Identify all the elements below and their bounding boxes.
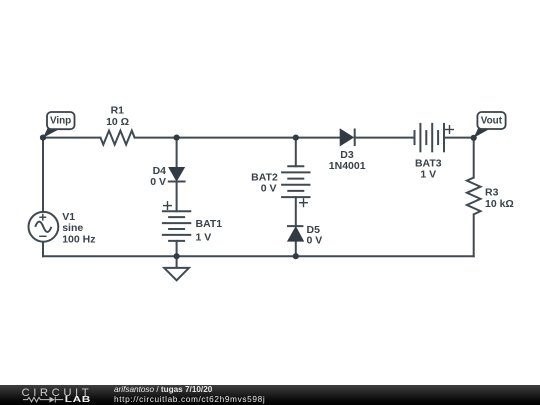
battery BAT1 labels bbox=[196, 218, 223, 244]
voltage source V1 bbox=[29, 212, 59, 242]
diode D4 bbox=[168, 168, 186, 182]
wire top rail: R1 to D3 anode bbox=[135, 137, 341, 139]
svg-text:1 V: 1 V bbox=[196, 232, 212, 244]
footer title text line 1 bbox=[114, 385, 212, 394]
svg-text:BAT1: BAT1 bbox=[196, 218, 223, 230]
wire bottom rail bbox=[43, 255, 474, 257]
resistor R1 bbox=[101, 131, 135, 145]
diode D3 bbox=[340, 129, 355, 147]
diode D4 labels bbox=[150, 165, 166, 188]
diode D5 labels bbox=[307, 224, 323, 246]
wire: BAT3 to Vout node bbox=[444, 137, 474, 139]
battery BAT1 bbox=[162, 211, 191, 241]
junction dot bottom rail at ground bbox=[174, 253, 180, 259]
svg-text:R1: R1 bbox=[111, 105, 125, 117]
battery BAT3 bbox=[415, 123, 445, 152]
V1 labels bbox=[62, 211, 95, 245]
node D (Vout) junction dot bbox=[471, 135, 477, 141]
svg-text:10 Ω: 10 Ω bbox=[106, 116, 129, 128]
battery BAT3 plus sign bbox=[445, 125, 454, 134]
svg-text:Vinp: Vinp bbox=[50, 116, 71, 127]
svg-text:BAT3: BAT3 bbox=[415, 158, 442, 170]
resistor R1 labels bbox=[106, 105, 129, 128]
svg-text:V1: V1 bbox=[62, 211, 75, 223]
wire: D3 cathode to BAT3 bbox=[355, 137, 415, 139]
wire: D4 cathode to BAT1 top bbox=[176, 181, 178, 211]
wire: R3 bottom to bottom rail bbox=[473, 214, 475, 256]
resistor R3 labels bbox=[485, 186, 514, 210]
V1 minus sign bbox=[39, 235, 46, 237]
svg-text:100 Hz: 100 Hz bbox=[62, 233, 95, 245]
wire: D5 anode to bottom rail bbox=[295, 241, 297, 256]
node C junction dot bbox=[293, 135, 299, 141]
wire: node B down to D4 bbox=[176, 138, 178, 168]
CircuitLab logo bbox=[0, 385, 100, 405]
wire: BAT1 bottom to bottom rail bbox=[176, 241, 178, 256]
svg-text:1N4001: 1N4001 bbox=[329, 160, 366, 172]
wire top rail left: node A to R1 bbox=[43, 137, 101, 139]
battery BAT2 plus sign bbox=[299, 198, 308, 207]
V1 plus sign bbox=[39, 214, 46, 221]
footer url line 2 bbox=[114, 394, 265, 404]
battery BAT2 bbox=[281, 166, 310, 197]
wire: V1 bottom to bottom rail bbox=[42, 242, 44, 257]
ground bbox=[164, 256, 189, 280]
battery BAT2 labels bbox=[251, 171, 278, 194]
svg-text:1 V: 1 V bbox=[420, 169, 436, 181]
svg-text:sine: sine bbox=[62, 222, 83, 234]
svg-text:0 V: 0 V bbox=[261, 182, 277, 194]
diode D5 bbox=[287, 226, 303, 241]
node Vout flag bbox=[474, 112, 506, 138]
node A junction dot bbox=[40, 135, 46, 141]
diode D3 labels bbox=[329, 149, 366, 172]
wire: BAT2 bottom to D5 cathode bbox=[295, 197, 297, 226]
svg-text:Vout: Vout bbox=[481, 116, 503, 127]
node Vinp flag bbox=[43, 112, 75, 138]
battery BAT1 plus sign bbox=[163, 201, 172, 210]
wire: node C down to BAT2 bbox=[295, 138, 297, 167]
resistor R3 bbox=[467, 178, 481, 215]
svg-text:0 V: 0 V bbox=[307, 234, 323, 246]
footer watermark bar bbox=[0, 385, 540, 405]
svg-text:R3: R3 bbox=[485, 186, 499, 198]
junction dot bottom rail at D5 bbox=[293, 253, 299, 259]
svg-text:LAB: LAB bbox=[65, 395, 91, 404]
battery BAT3 labels bbox=[415, 158, 442, 181]
svg-text:0 V: 0 V bbox=[150, 176, 166, 188]
svg-text:10 kΩ: 10 kΩ bbox=[485, 198, 514, 210]
wire left vertical: node A to V1 top bbox=[42, 138, 44, 212]
node B junction dot bbox=[174, 135, 180, 141]
wire: Vout node down to R3 bbox=[473, 138, 475, 178]
